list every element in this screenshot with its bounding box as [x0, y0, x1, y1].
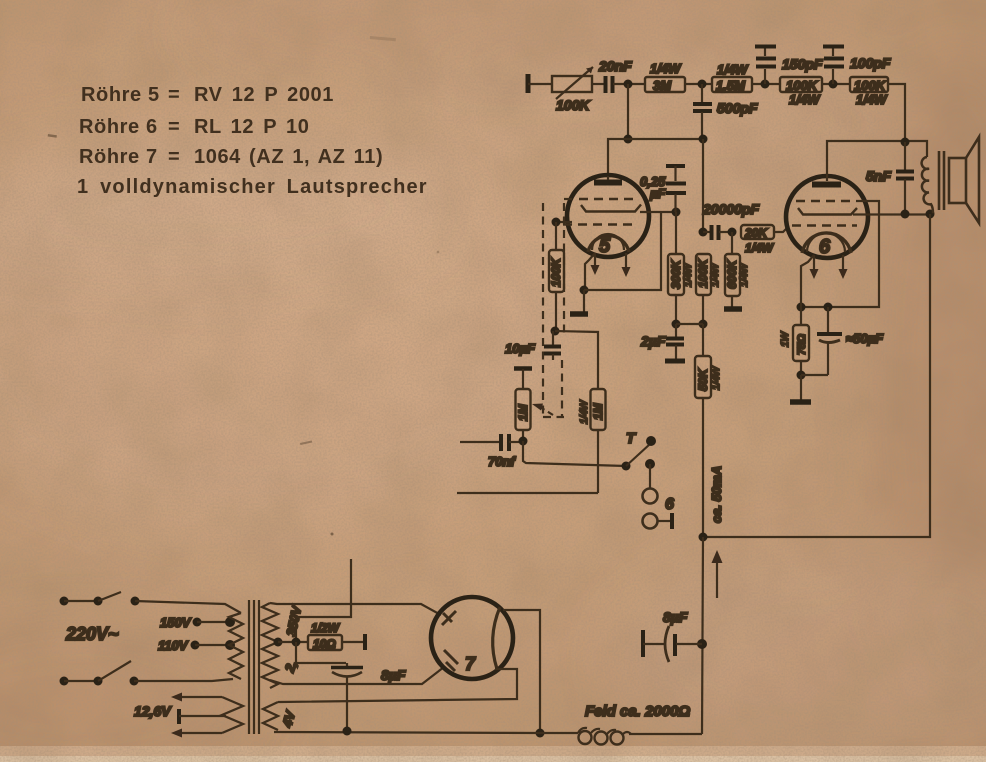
wire stub from above to 10Ω node — [296, 559, 351, 642]
node I (grid-leak top) — [552, 218, 561, 227]
capacitor 5nF — [866, 142, 914, 214]
node B (x628 y139) — [624, 135, 633, 144]
capacitor 70nF (input) — [460, 434, 523, 469]
node V (B+ tee) — [699, 533, 708, 542]
wire lower pole to primary — [134, 679, 233, 681]
node E — [761, 80, 770, 89]
wire V7 cathode output — [503, 610, 540, 733]
wire 500pF line down — [702, 139, 704, 232]
node S (cathode left) — [797, 303, 806, 312]
node K (input node) — [519, 437, 528, 446]
capacitor 500pF — [693, 84, 758, 139]
svg-text:RV 12 P 2001: RV 12 P 2001 — [194, 84, 334, 106]
transformer primary winding — [229, 613, 243, 679]
wire minus bus left — [274, 732, 540, 733]
potentiometer 1M (with terminal) — [514, 369, 532, 442]
svg-text:6: 6 — [819, 236, 831, 258]
ground (V5 cathode) — [570, 290, 588, 314]
node Z (8µF return) — [343, 727, 352, 736]
svg-text:600K: 600K — [725, 259, 739, 289]
legend text — [77, 84, 428, 198]
tube V6 (Röhre 6) — [786, 176, 868, 279]
resistor 600K — [725, 232, 750, 307]
ground (V6 cathode) — [790, 375, 811, 402]
wire node J to 1M resistor (right) — [555, 331, 598, 389]
svg-text:70nf: 70nf — [488, 454, 516, 469]
svg-text:10µF: 10µF — [505, 341, 536, 356]
resistor 20K — [741, 225, 775, 255]
field coil Feld ca. 2000Ω — [540, 703, 702, 745]
arrow up (current direction) — [712, 550, 723, 598]
wire cathode bus — [584, 213, 661, 290]
shield (dashed) around grid resistor — [543, 199, 573, 417]
capacitor 2µF — [640, 324, 685, 361]
wire — [592, 83, 604, 85]
wire B+ vertical — [702, 398, 704, 537]
node J — [551, 327, 560, 336]
svg-text:RL 12 P 10: RL 12 P 10 — [194, 116, 309, 138]
heater winding 4V — [263, 702, 280, 730]
node T2 (cathode right) — [824, 303, 833, 312]
wire node K to switch — [523, 441, 626, 466]
node N — [672, 320, 681, 329]
node C (3M / 1,5M junction) — [698, 80, 707, 89]
jack contacts 6 — [643, 459, 675, 529]
capacitor 20000pF — [702, 201, 759, 240]
svg-text:3M: 3M — [653, 78, 672, 93]
node F — [829, 80, 838, 89]
wire right-side B+ down — [703, 214, 930, 537]
svg-text:1M: 1M — [516, 403, 530, 421]
node H (cathode node) — [580, 286, 589, 295]
svg-text:=: = — [168, 146, 180, 168]
svg-text:50K: 50K — [696, 368, 710, 391]
svg-text:1W: 1W — [780, 330, 791, 347]
wire V5 cathode left leg — [585, 253, 595, 290]
svg-text:1/4W: 1/4W — [856, 92, 888, 107]
mains switch (upper pole) — [60, 592, 140, 606]
svg-text:20000pF: 20000pF — [702, 201, 759, 217]
node X — [292, 638, 301, 647]
svg-text:µF: µF — [649, 186, 666, 201]
node AA (8µF 2 junction) — [697, 639, 707, 649]
svg-text:1/4W: 1/4W — [710, 262, 721, 287]
switch T — [622, 430, 657, 471]
svg-text:220V~: 220V~ — [65, 624, 119, 644]
resistor 100K (R3) — [780, 77, 822, 107]
svg-text:20K: 20K — [744, 226, 768, 240]
node M — [728, 228, 737, 237]
wire — [528, 83, 552, 85]
node R (speaker bottom) — [926, 210, 935, 219]
capacitor 150pF — [755, 47, 823, 85]
svg-text:1,5M: 1,5M — [716, 78, 746, 93]
svg-text:100K: 100K — [549, 257, 563, 287]
capacitor 8µF (second filter) — [643, 609, 702, 662]
wire 350V top to V7 anode — [270, 603, 441, 615]
svg-text:8µF: 8µF — [381, 667, 406, 683]
svg-text:150V: 150V — [160, 615, 192, 630]
svg-text:1/4W: 1/4W — [789, 92, 821, 107]
transformer core — [249, 600, 259, 734]
capacitor 8µF (first filter) — [296, 642, 406, 731]
svg-text:8µF: 8µF — [663, 609, 688, 625]
wire grid bus y139 — [608, 139, 703, 176]
svg-text:Röhre 5: Röhre 5 — [81, 84, 160, 106]
tube V7 (rectifier) — [431, 597, 513, 679]
svg-text:150pF: 150pF — [782, 56, 823, 72]
svg-text:ca. 50mA: ca. 50mA — [709, 466, 724, 523]
svg-text:=: = — [168, 84, 180, 106]
wire V6 cathode leg — [801, 255, 814, 307]
svg-text:5nF: 5nF — [866, 168, 891, 184]
node Y (minus bus) — [536, 729, 545, 738]
resistor 300K — [668, 212, 694, 324]
svg-text:1/4W: 1/4W — [650, 61, 682, 76]
capacitor 20nF — [598, 58, 632, 93]
svg-text:110V: 110V — [158, 638, 189, 653]
wire N-O — [676, 323, 703, 325]
resistor 100K (V5 anode load) — [696, 254, 721, 324]
node O — [699, 320, 708, 329]
svg-text:Röhre 6: Röhre 6 — [79, 116, 158, 138]
heater winding 12,6V — [171, 693, 243, 738]
svg-text:300K: 300K — [669, 259, 683, 289]
node U (bias bottom) — [797, 371, 806, 380]
wire node A down — [627, 84, 629, 139]
wire V6 screen to speaker bus — [853, 213, 931, 215]
capacitor 100pF — [823, 47, 891, 85]
svg-text:≈50µF: ≈50µF — [846, 331, 884, 346]
wire V5 grid to coupling node — [640, 211, 676, 213]
svg-text:12,6V: 12,6V — [134, 703, 172, 719]
svg-text:2µF: 2µF — [640, 333, 666, 349]
wire field coil up to 8µF node — [702, 537, 703, 734]
tap 110V — [191, 640, 236, 650]
resistor 100K (grid leak, shielded) — [549, 222, 564, 330]
wire V5 grid left — [556, 221, 572, 223]
svg-text:75Ω: 75Ω — [796, 334, 808, 355]
svg-text:1/4W: 1/4W — [739, 262, 750, 287]
tap 150V — [193, 617, 236, 627]
svg-text:1064 (AZ 1, AZ 11): 1064 (AZ 1, AZ 11) — [194, 146, 383, 168]
wire — [752, 83, 780, 85]
tube V5 (Röhre 5) — [563, 175, 649, 277]
node Q (5nF bottom) — [901, 210, 910, 219]
wire 20K to V6 grid — [774, 227, 788, 232]
svg-text:100K: 100K — [556, 97, 590, 113]
potentiometer 100K (volume) — [552, 67, 593, 113]
svg-text:6: 6 — [665, 496, 674, 513]
resistor 75Ω 1W — [780, 307, 809, 375]
node L (20000pF tap) — [699, 228, 708, 237]
svg-text:1/4W: 1/4W — [717, 62, 749, 77]
svg-text:1 volldynamischer Lautsprecher: 1 volldynamischer Lautsprecher — [77, 176, 428, 198]
resistor 1,5M — [712, 62, 752, 93]
svg-text:10Ω: 10Ω — [313, 637, 336, 651]
ground (600K) — [724, 306, 742, 312]
wire upper pole to primary — [135, 601, 241, 613]
svg-text:5: 5 — [599, 235, 611, 257]
svg-text:100pF: 100pF — [850, 55, 891, 71]
svg-text:1/4W: 1/4W — [745, 241, 775, 255]
capacitor 50µF (cathode bypass) — [801, 307, 884, 375]
wire 350V bottom to V7 anode 2 — [270, 667, 444, 684]
svg-text:Feld ca. 2000Ω: Feld ca. 2000Ω — [585, 703, 690, 720]
node D (x703 y139) — [699, 135, 708, 144]
svg-text:100K: 100K — [854, 78, 887, 93]
resistor 3M — [645, 61, 685, 93]
svg-text:100K: 100K — [696, 258, 710, 288]
mains switch (lower pole) — [60, 661, 139, 686]
wire — [685, 83, 712, 85]
svg-text:7: 7 — [465, 654, 476, 674]
svg-text:20nF: 20nF — [598, 58, 632, 74]
wire to plate drop — [888, 84, 905, 142]
svg-text:1/4W: 1/4W — [579, 399, 590, 424]
wire tap to 10Ω — [278, 641, 308, 643]
wire — [613, 83, 645, 85]
svg-text:1/2W: 1/2W — [311, 621, 341, 635]
HV secondary winding 350V — [262, 603, 278, 688]
node A (after 20nF) — [624, 80, 633, 89]
wire lower input stub — [457, 492, 598, 494]
wire V7 filament to 4V — [280, 669, 517, 702]
wire V6 plate to top bus — [827, 141, 927, 176]
svg-text:Röhre 7: Röhre 7 — [79, 146, 158, 168]
svg-text:1/4W: 1/4W — [711, 365, 722, 390]
node G (V5 grid node) — [672, 208, 681, 217]
capacitor 0,25µF — [640, 166, 686, 212]
wiper arrow (dashed link to 1M pot) — [540, 407, 553, 415]
resistor 1M (1/4W) — [579, 389, 606, 493]
svg-text:500pF: 500pF — [717, 100, 758, 116]
svg-text:=: = — [168, 116, 180, 138]
wire — [822, 83, 850, 85]
svg-text:100K: 100K — [786, 78, 819, 93]
resistor 10Ω 1/2W — [308, 621, 365, 651]
resistor 50K — [695, 324, 722, 398]
node W (HV tap) — [274, 638, 283, 647]
node P (5nF top) — [901, 138, 910, 147]
capacitor 10µF (in shield) — [505, 331, 561, 360]
input terminal — [526, 74, 531, 93]
speaker (volldynamischer Lautsprecher) — [922, 137, 979, 223]
svg-text:1/4W: 1/4W — [683, 262, 694, 287]
svg-text:1M: 1M — [591, 402, 605, 420]
resistor 100K (R4) — [850, 77, 888, 107]
wire V6 grid return loop — [801, 201, 879, 307]
